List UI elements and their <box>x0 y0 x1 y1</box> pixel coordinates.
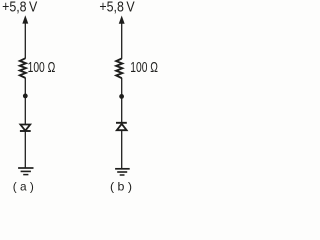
svg-text:100 Ω: 100 Ω <box>130 60 158 76</box>
svg-text:( b ): ( b ) <box>110 180 132 194</box>
node junction dot (a) <box>23 94 28 99</box>
diode D1 (a) anode top, cathode bottom <box>20 125 30 131</box>
ground (b) <box>115 169 130 175</box>
wire (a) resistor to diode <box>24 78 26 125</box>
svg-text:100 Ω: 100 Ω <box>28 60 56 76</box>
diode D2 (b) cathode top, anode bottom <box>116 122 127 124</box>
supply arrow (b) <box>119 16 125 24</box>
svg-text:+5,8 V: +5,8 V <box>99 0 135 15</box>
wire (a) supply to resistor <box>24 23 26 59</box>
wire (a) diode to ground <box>24 131 26 168</box>
svg-text:+5,8 V: +5,8 V <box>2 0 38 15</box>
ground (a) <box>18 168 33 175</box>
node junction dot (b) <box>119 94 124 99</box>
resistor R2 100 ohm (b) <box>116 59 122 79</box>
supply arrow (a) <box>22 15 28 23</box>
wire (b) resistor to diode <box>121 78 123 122</box>
wire (b) supply to resistor <box>121 23 123 59</box>
resistor R1 100 ohm (a) <box>20 58 26 78</box>
svg-text:( a ): ( a ) <box>13 180 34 194</box>
wire (b) diode to ground <box>121 130 123 168</box>
